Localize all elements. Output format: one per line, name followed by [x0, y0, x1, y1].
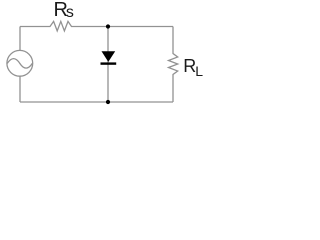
svg-text:L: L: [195, 63, 203, 79]
svg-text:s: s: [66, 4, 74, 21]
